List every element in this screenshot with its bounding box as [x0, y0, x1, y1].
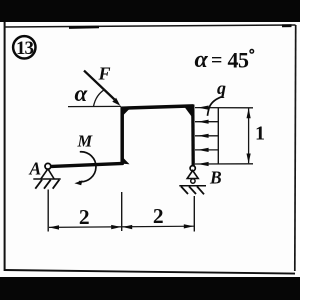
svg-text:A: A: [29, 158, 42, 178]
force F arrowhead: [112, 98, 120, 106]
bottom dimension line: [49, 226, 194, 227]
load arrow row 1 head: [198, 106, 209, 110]
svg-text:2: 2: [79, 205, 90, 229]
support B triangle: [187, 171, 198, 179]
beam right vertical member: [191, 105, 195, 166]
support A pin circle: [45, 163, 51, 169]
svg-text:q: q: [217, 78, 226, 98]
bottom dimension extension line right: [193, 196, 195, 232]
degree mark: [250, 50, 254, 54]
task number badge circle 13: [13, 36, 35, 58]
corner fillet top-left: [123, 109, 130, 116]
frame top border thick dash 1: [69, 26, 99, 29]
dim arrow left-left: [49, 225, 59, 229]
dimension 1 bottom arrowhead: [247, 154, 251, 164]
bottom black band: [0, 277, 300, 300]
frame top border thick dash 2: [282, 24, 292, 27]
frame top border line: [4, 25, 296, 27]
support A triangle: [41, 169, 54, 179]
load arrow row 4 head: [198, 148, 209, 152]
support A ground line: [33, 178, 60, 180]
svg-text:B: B: [209, 167, 222, 187]
load arrow row 2 head: [198, 120, 209, 124]
svg-text:α: α: [75, 81, 89, 106]
top black band: [0, 0, 300, 22]
svg-text:M: M: [77, 132, 94, 151]
load arrow row 2 line: [195, 121, 218, 123]
support B ground line: [179, 185, 206, 187]
svg-text:α: α: [195, 47, 209, 73]
svg-text:=: =: [211, 50, 222, 72]
support B hatch 3: [197, 186, 204, 194]
dimension 1 top arrowhead: [247, 108, 251, 118]
svg-text:1: 1: [255, 123, 265, 145]
load arrow row 5 line: [195, 163, 253, 165]
angle alpha arc: [94, 89, 106, 106]
load arrow row 3 line: [195, 135, 218, 137]
support A hatch 2: [44, 180, 51, 189]
svg-text:2: 2: [153, 204, 164, 228]
load arrow row 1 line: [195, 107, 253, 109]
frame bottom border line: [4, 270, 295, 274]
svg-text:F: F: [98, 64, 111, 84]
dim arrow left-right: [111, 225, 121, 229]
beam bottom-left horizontal member: [49, 163, 123, 166]
dimension 1 line: [248, 109, 250, 164]
frame right border line: [294, 25, 297, 271]
label q leader curve: [208, 97, 222, 116]
support A hatch 3: [53, 180, 60, 189]
corner fillet bottom-left: [123, 158, 130, 165]
support B hatch 1: [181, 186, 188, 194]
load arrow row 5 head: [198, 162, 209, 166]
bottom dimension extension line middle: [121, 192, 123, 231]
dim arrow right-right: [184, 224, 194, 228]
load arrow row 4 line: [195, 149, 218, 151]
frame left border line: [4, 22, 6, 271]
moment M arc: [79, 152, 96, 182]
svg-text:13: 13: [16, 38, 34, 59]
corner fillet top-right: [185, 107, 193, 118]
support B hatch 2: [189, 186, 196, 194]
force F line: [84, 71, 115, 100]
moment M arrowhead: [74, 180, 82, 185]
dim arrow right-left: [122, 225, 132, 229]
bottom dimension extension line left: [47, 190, 49, 232]
distributed load right boundary: [217, 108, 219, 164]
support A hatch 1: [35, 180, 42, 189]
support B roller circle: [191, 179, 195, 183]
load arrow row 3 head: [198, 134, 209, 138]
svg-text:45: 45: [228, 48, 250, 73]
beam left vertical member: [120, 107, 124, 165]
angle reference line: [68, 105, 121, 107]
support B pin circle: [190, 166, 195, 171]
beam top horizontal member: [121, 106, 194, 108]
